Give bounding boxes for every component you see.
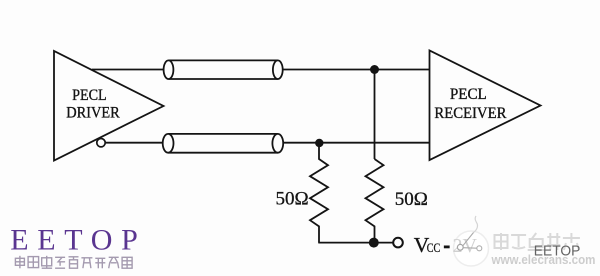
PECL receiver — [430, 51, 541, 161]
label VCC - 2V — [414, 233, 450, 257]
inversion bubble — [97, 139, 105, 147]
transmission line T1 (top) — [164, 60, 283, 79]
svg-text:50Ω: 50Ω — [276, 189, 309, 210]
svg-text:RECEIVER: RECEIVER — [434, 103, 506, 122]
svg-text:PECL: PECL — [450, 84, 487, 103]
svg-text:2V: 2V — [453, 235, 478, 257]
svg-text:www.elecrans.com: www.elecrans.com — [491, 253, 596, 267]
svg-text:PECL: PECL — [72, 85, 107, 104]
label PECL RECEIVER — [434, 84, 506, 122]
wire (bottom line to receiver) — [283, 142, 429, 144]
svg-text:50Ω: 50Ω — [395, 189, 428, 210]
svg-text:EETOP: EETOP — [10, 223, 138, 256]
resistor R1 (left, 50 ohm) — [310, 143, 328, 243]
PECL driver — [54, 51, 164, 161]
svg-text:CC: CC — [427, 241, 440, 255]
label PECL DRIVER — [66, 85, 120, 122]
wire (junction down to R2) — [374, 70, 376, 160]
terminal VCC-2V (open circle) — [393, 238, 403, 248]
svg-text:DRIVER: DRIVER — [66, 103, 120, 122]
wire (top line to receiver) — [283, 69, 430, 71]
junction (top wire / R2) — [370, 65, 379, 74]
junction (bottom wire / R1) — [315, 139, 323, 147]
transmission line T2 (bottom) — [163, 134, 283, 153]
wire (driver bottom output to bottom line) — [105, 142, 163, 144]
resistor R2 (right, 50 ohm) — [366, 159, 384, 243]
wire (termination rail) — [318, 242, 392, 244]
junction (R2 / termination rail) — [369, 238, 379, 248]
wire (driver top output to top line) — [92, 69, 164, 71]
